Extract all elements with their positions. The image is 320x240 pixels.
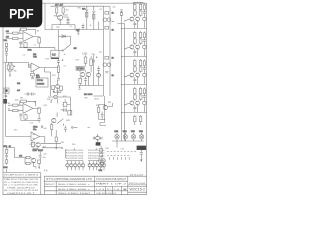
svg-text:CHK BY 13-67-67: CHK BY 13-67-67 bbox=[96, 193, 117, 195]
transistor KA2 bbox=[70, 161, 73, 171]
label vib bbox=[4, 40, 8, 42]
svg-text:R35: R35 bbox=[44, 105, 47, 107]
wire keyboard KB rail bbox=[88, 160, 105, 162]
wire Q9 to rail bbox=[93, 95, 103, 97]
transistor Q5 bbox=[136, 17, 140, 21]
resistor R14 bbox=[134, 59, 136, 66]
resistor R20 bbox=[98, 105, 100, 113]
resistor R44 bbox=[5, 43, 7, 48]
resistor R30 bbox=[90, 56, 93, 66]
svg-text:ADJ: ADJ bbox=[36, 76, 40, 79]
resistor VR5c bbox=[5, 160, 8, 163]
resistor R17 bbox=[139, 87, 141, 94]
transistor Q11 bbox=[136, 101, 140, 105]
transistor Q9b bbox=[97, 73, 101, 77]
svg-text:TR2: TR2 bbox=[56, 27, 60, 29]
wire chain down bbox=[57, 72, 59, 78]
capacitor C5 bbox=[57, 58, 60, 62]
lamp LP1 bbox=[115, 133, 119, 141]
wire T1 top bbox=[54, 48, 56, 51]
svg-text:R37: R37 bbox=[30, 144, 33, 146]
connector J2 pin bbox=[5, 89, 7, 91]
label R2 value bbox=[6, 36, 9, 38]
label rail cluster2 bbox=[112, 58, 114, 60]
wire drops to bus bbox=[45, 3, 75, 29]
label MO MOD bbox=[84, 94, 93, 96]
potentiometer VR2 bbox=[85, 9, 88, 20]
svg-text:4k7 4k7: 4k7 4k7 bbox=[55, 4, 64, 6]
resistor R71 right bbox=[143, 31, 145, 37]
junction lamp bus bbox=[116, 140, 117, 141]
label VR2 bbox=[82, 9, 85, 11]
svg-text:PITCH: PITCH bbox=[37, 80, 44, 82]
capacitor C81 right bbox=[143, 38, 146, 46]
lamp LP2 label bbox=[123, 131, 128, 133]
wire U3 inputs bbox=[18, 105, 23, 111]
wire cell 3 bottom row bbox=[122, 105, 147, 113]
resistor R36 bbox=[38, 108, 41, 113]
switch SW4 bbox=[59, 45, 71, 52]
resistor R45 bbox=[5, 48, 7, 54]
svg-text:TR1: TR1 bbox=[54, 16, 58, 18]
wire row y97 bbox=[48, 93, 71, 98]
capacitor C3 bbox=[82, 24, 85, 30]
svg-text:100k: 100k bbox=[3, 167, 7, 169]
resistor R4b bbox=[38, 38, 41, 43]
transistor KB3 bbox=[95, 161, 98, 171]
wire cell4 stubs bbox=[135, 122, 141, 125]
wire cell 2 base links bbox=[125, 71, 141, 77]
title text row1 bbox=[46, 178, 92, 181]
lamp LP4 bbox=[139, 133, 143, 141]
wire input to U3 bbox=[8, 105, 13, 111]
svg-text:MO MOD: MO MOD bbox=[84, 94, 93, 96]
wire rail V2 bbox=[109, 7, 111, 97]
svg-text:1M: 1M bbox=[8, 108, 11, 110]
svg-text:C5: C5 bbox=[64, 66, 66, 68]
capacitor C83 right bbox=[143, 94, 146, 102]
transistor Q92 right bbox=[143, 73, 146, 76]
label r38 bbox=[19, 155, 22, 157]
wire bus drop x58.4 bbox=[57, 30, 59, 51]
resistor R12 bbox=[134, 31, 136, 38]
capacitor C22 bbox=[93, 137, 95, 140]
op-amp U2 bbox=[31, 63, 40, 72]
wire R27 tie bbox=[62, 104, 70, 106]
svg-text:C2: C2 bbox=[70, 26, 72, 28]
box pitch reference bbox=[36, 78, 48, 87]
label VR5d bbox=[3, 167, 7, 169]
transistor KA3 bbox=[74, 161, 77, 171]
capacitor C10e bbox=[133, 105, 136, 112]
wire Q6 cluster bbox=[53, 83, 61, 93]
wire oscillator top bracket bbox=[134, 2, 144, 4]
svg-text:C4: C4 bbox=[23, 55, 25, 57]
wire VR5 down bbox=[6, 163, 8, 172]
wire bus B1 bbox=[45, 29, 104, 31]
wire cell 2 bottom row bbox=[122, 77, 147, 85]
transistor KB5 bbox=[102, 161, 105, 171]
wire U3 feedback loop bbox=[20, 101, 36, 106]
op-amp U1 bbox=[23, 32, 33, 42]
svg-text:R41: R41 bbox=[106, 148, 109, 150]
transistor Q8 bbox=[130, 73, 134, 77]
wire rail V1 bbox=[103, 7, 105, 97]
transistor Q9 bbox=[86, 72, 91, 77]
lamp LP2 bbox=[123, 133, 127, 141]
wire label tie bbox=[85, 55, 87, 57]
keyboard block KA text rows bbox=[66, 150, 84, 160]
label U2b bbox=[33, 56, 38, 58]
svg-text:10k: 10k bbox=[14, 71, 17, 73]
wire rail top join bbox=[104, 5, 111, 7]
svg-text:C20: C20 bbox=[43, 154, 46, 156]
svg-text:C1: C1 bbox=[34, 45, 36, 47]
svg-text:BY: BY bbox=[107, 189, 112, 191]
transistor Q2 bbox=[103, 18, 107, 22]
wire rail V1 tail bbox=[104, 96, 106, 123]
label SW4 bbox=[74, 48, 77, 50]
svg-text:VR2: VR2 bbox=[78, 8, 82, 10]
wire input long bbox=[6, 136, 32, 138]
transistor Q7 bbox=[136, 45, 140, 49]
op-amp U2 input caps bbox=[29, 64, 30, 67]
svg-text:VIB.: VIB. bbox=[4, 40, 8, 42]
svg-text:STYLOPHONE DIAMOND LTD: STYLOPHONE DIAMOND LTD bbox=[46, 178, 92, 181]
lamp LP3 label bbox=[131, 131, 136, 133]
svg-text:1M: 1M bbox=[6, 36, 9, 38]
label R5 R6 bbox=[55, 4, 64, 6]
transistor Q11 bbox=[31, 158, 36, 163]
ground arrow speaker bbox=[140, 154, 142, 162]
capacitor C30 rail top bbox=[120, 10, 122, 11]
jack ring J3 bbox=[54, 95, 58, 99]
svg-text:100n: 100n bbox=[28, 50, 32, 52]
resistor R27 bbox=[63, 99, 67, 107]
svg-text:C10: C10 bbox=[30, 123, 33, 125]
lamp LP1 label bbox=[114, 131, 119, 133]
transistor KA5 bbox=[81, 161, 84, 171]
plus mark VR bbox=[14, 66, 16, 68]
wire right rail x70.5 bbox=[58, 97, 71, 116]
resistor R21 bbox=[7, 63, 9, 70]
capacitor C19 bbox=[42, 126, 43, 129]
resistor VR5 bbox=[5, 148, 8, 154]
svg-text:ST350: ST350 bbox=[77, 68, 85, 71]
svg-text:VIB. +/- T1 .56 51P05700 U 8.5: VIB. +/- T1 .56 51P05700 U 8.5-35 CHKD bbox=[4, 185, 38, 187]
transistor Q9 bbox=[136, 73, 140, 77]
resistor R32 bbox=[13, 104, 18, 106]
capacitor C3b bbox=[105, 72, 108, 73]
transistor Q91 right bbox=[143, 45, 146, 48]
svg-text:VIB. +/- T2 CAPSULE 24 2.2 AND: VIB. +/- T2 CAPSULE 24 2.2 AND 9150 IN bbox=[4, 181, 38, 184]
title text row3 bbox=[58, 189, 91, 191]
resistor R29 bbox=[84, 57, 87, 63]
capacitor C12 bbox=[5, 153, 8, 160]
svg-text:TR9: TR9 bbox=[56, 91, 60, 93]
wire top feed bbox=[51, 6, 104, 11]
transistor Q4 bbox=[130, 17, 134, 21]
svg-text:ONE 4550P157: ONE 4550P157 bbox=[7, 187, 37, 189]
capacitor C6e bbox=[133, 49, 136, 56]
notes text bbox=[4, 173, 39, 195]
switch SW3 bbox=[57, 113, 63, 127]
junction cell 1 bbox=[121, 48, 125, 57]
transistor Q3b bbox=[107, 63, 111, 67]
transistor Q16 bbox=[99, 159, 102, 162]
svg-text:R29: R29 bbox=[76, 60, 79, 62]
wire Q14 right bbox=[108, 103, 113, 107]
svg-text:10n: 10n bbox=[43, 157, 46, 159]
svg-text:WS 15-2-004: WS 15-2-004 bbox=[129, 183, 146, 185]
svg-text:560: 560 bbox=[44, 128, 47, 130]
svg-text:VIB. LAMP R1234 PC 15 RANGE 16: VIB. LAMP R1234 PC 15 RANGE 16 bbox=[4, 173, 39, 176]
label vol max bbox=[33, 149, 44, 152]
capacitor C23 bbox=[100, 137, 102, 140]
wire U2 lower bbox=[33, 70, 35, 73]
label rail cluster2b bbox=[112, 75, 114, 77]
svg-text:100k: 100k bbox=[82, 54, 88, 56]
transistor KB4 bbox=[99, 161, 102, 171]
wire U4 bottom bbox=[33, 141, 38, 149]
svg-text:SW2: SW2 bbox=[66, 120, 70, 122]
svg-text:32R: 32R bbox=[99, 170, 103, 172]
capacitor C6 bbox=[57, 79, 60, 83]
resistor R38 bbox=[26, 156, 30, 158]
label U2 bbox=[33, 54, 37, 56]
svg-text:TR8: TR8 bbox=[108, 102, 112, 104]
svg-text:R10 R12 R14 R16: R10 R12 R14 R16 bbox=[66, 158, 84, 160]
svg-text:1k: 1k bbox=[61, 148, 63, 150]
transistor Q90 right bbox=[143, 17, 146, 20]
transistor Q17 bbox=[102, 159, 105, 162]
capacitor C8 bbox=[92, 55, 95, 70]
svg-text:R20: R20 bbox=[96, 105, 99, 107]
wire U1 inputs bbox=[18, 33, 23, 38]
capacitor C10 bbox=[19, 113, 22, 121]
wire bus left bbox=[3, 63, 31, 68]
resistor R3 bbox=[21, 28, 27, 30]
resistor R2 bbox=[13, 38, 18, 40]
keyboard block KB top stub bbox=[95, 148, 97, 150]
svg-text:1M: 1M bbox=[8, 103, 11, 105]
lamp LP4 label bbox=[139, 131, 144, 133]
svg-text:VR6: VR6 bbox=[61, 142, 65, 144]
title text row4 bbox=[58, 193, 92, 195]
svg-text:1k: 1k bbox=[112, 75, 114, 77]
transistor Q14 bbox=[103, 105, 107, 109]
capacitor C9 bbox=[97, 66, 100, 73]
svg-text:R23: R23 bbox=[46, 59, 49, 61]
label VR5b bbox=[9, 146, 11, 148]
plus sign C5 bbox=[62, 59, 64, 61]
resistor R6 bbox=[62, 8, 64, 13]
label value 4k7 bbox=[76, 30, 80, 32]
wire Q1 connections bbox=[57, 13, 63, 25]
resistor R39 bbox=[26, 162, 30, 164]
svg-text:DRN: DRN bbox=[96, 189, 104, 191]
svg-text:EDIT MAX: EDIT MAX bbox=[33, 149, 44, 152]
svg-text:VIB. +/- T0 P1541 E3 1.62 350: VIB. +/- T0 P1541 E3 1.62 350 19-100 bbox=[4, 190, 39, 192]
svg-text:P.A.: P.A. bbox=[114, 188, 120, 191]
capacitor C13 bbox=[39, 153, 42, 161]
speaker label box bbox=[137, 146, 147, 150]
potentiometer VR3 bbox=[92, 11, 95, 22]
wire cell 1 bottom row bbox=[122, 49, 147, 57]
lamp LP3 bbox=[131, 133, 135, 141]
label 100k dark bbox=[82, 54, 88, 56]
label jack cluster bbox=[99, 170, 103, 172]
resistor R16 bbox=[134, 87, 136, 94]
wire collector bus bbox=[52, 15, 75, 25]
svg-text:C9: C9 bbox=[99, 75, 101, 77]
dashed line mid-bottom bbox=[107, 151, 136, 153]
svg-text:680: 680 bbox=[20, 98, 23, 100]
wire R29 to box bbox=[80, 63, 91, 72]
resistor R7b bbox=[105, 57, 109, 60]
wire lamp bus bbox=[112, 141, 144, 148]
wire VR drops bbox=[87, 21, 99, 30]
svg-text:22k: 22k bbox=[113, 7, 116, 9]
transistor KA4 bbox=[77, 161, 80, 171]
capacitor C16 bbox=[31, 76, 34, 79]
ground arrow J3 bbox=[50, 99, 52, 103]
ground arrow VR bbox=[9, 73, 11, 77]
transistor Q15 bbox=[96, 136, 100, 140]
transistor Q1 bbox=[58, 15, 63, 20]
transistor Q2b bbox=[103, 63, 107, 67]
keyboard block KA top stub bbox=[73, 148, 75, 150]
contact stub bbox=[72, 127, 78, 129]
svg-text:900-1300-1600: 900-1300-1600 bbox=[58, 193, 92, 195]
capacitor C2 bbox=[67, 17, 70, 21]
svg-text:PRODUCT: PRODUCT bbox=[45, 184, 56, 186]
diode D2 bbox=[58, 35, 70, 38]
resistor R33 bbox=[13, 110, 18, 112]
wire U1 output bbox=[19, 37, 55, 48]
wire U4 output bbox=[40, 137, 45, 144]
label U4 bbox=[33, 127, 37, 129]
svg-text:1M: 1M bbox=[37, 31, 40, 33]
resistor R42 bbox=[100, 152, 103, 157]
svg-text:PART 1 OF 2: PART 1 OF 2 bbox=[96, 183, 128, 186]
svg-text:MOD: MOD bbox=[95, 99, 100, 101]
svg-text:R10 R12 R14 R16: R10 R12 R14 R16 bbox=[66, 153, 84, 155]
transistor Q8 bbox=[80, 72, 85, 77]
svg-text:TR6: TR6 bbox=[84, 98, 88, 100]
transformer T1 box bbox=[51, 50, 59, 57]
plus mark Q6 bbox=[54, 91, 55, 92]
junction Q14 bbox=[104, 104, 105, 120]
tick row below dashes bbox=[110, 157, 130, 159]
wire keyboard KA rail bbox=[66, 160, 83, 162]
capacitor C9b bbox=[84, 77, 87, 86]
svg-text:R30: R30 bbox=[92, 54, 95, 56]
wire feedback loop bbox=[20, 29, 36, 34]
label mark top bbox=[88, 126, 90, 128]
svg-text:R14: R14 bbox=[72, 144, 75, 146]
resistor R70 right bbox=[143, 3, 145, 9]
svg-text:2k: 2k bbox=[112, 13, 114, 15]
dashed line mid-bottom 2 bbox=[107, 155, 130, 157]
capacitor C4 bbox=[5, 54, 8, 63]
wire cell 1 base links bbox=[125, 43, 141, 49]
capacitor C6 box bbox=[133, 38, 136, 44]
svg-text:SW: SW bbox=[74, 48, 77, 50]
svg-text:6.3: 6.3 bbox=[52, 52, 56, 56]
op-amp U3 bbox=[23, 104, 33, 114]
svg-text:1M: 1M bbox=[6, 31, 9, 33]
op-amp U4 bbox=[31, 132, 40, 141]
junction cell 2 bbox=[121, 76, 125, 85]
resistor R10 bbox=[134, 3, 136, 10]
transistor KB2 bbox=[92, 161, 95, 171]
resistor R28 bbox=[51, 123, 53, 137]
title text right small bbox=[129, 183, 146, 185]
capacitor C80 right bbox=[143, 10, 146, 18]
wire Q11 bbox=[25, 158, 36, 167]
resistor R24 bbox=[57, 62, 59, 72]
label 100n bbox=[28, 50, 32, 52]
svg-text:2k: 2k bbox=[112, 58, 114, 60]
svg-text:R25: R25 bbox=[63, 96, 66, 98]
resistor R23 bbox=[31, 73, 35, 76]
capacitor C9 box bbox=[139, 66, 142, 72]
svg-text:10u: 10u bbox=[99, 52, 102, 54]
dark box Q15 bbox=[96, 142, 101, 145]
capacitor C15 bbox=[101, 112, 104, 117]
ground arrow Q11 bbox=[36, 163, 40, 169]
wire U2 output bbox=[40, 68, 59, 97]
PDF badge bbox=[0, 0, 42, 27]
notes box frame bbox=[3, 173, 41, 195]
wire input to U1 bbox=[6, 33, 13, 38]
capacitor C18 bbox=[5, 95, 8, 96]
svg-text:1k: 1k bbox=[90, 25, 92, 27]
svg-text:SW1: SW1 bbox=[61, 110, 65, 112]
resistor R15 bbox=[139, 59, 141, 66]
svg-text:150k: 150k bbox=[15, 100, 19, 102]
resistor R22 bbox=[11, 63, 13, 70]
svg-text:10k: 10k bbox=[82, 9, 85, 11]
capacitor C4 box bbox=[133, 10, 136, 16]
svg-text:R26: R26 bbox=[47, 99, 50, 101]
wire C13 top bbox=[39, 151, 41, 153]
transistor Q18 bbox=[100, 162, 103, 168]
capacitor C4e bbox=[133, 21, 136, 28]
svg-text:R10 R12 R14 R16: R10 R12 R14 R16 bbox=[66, 150, 84, 152]
wire stub right bbox=[7, 148, 27, 158]
capacitor C8e bbox=[133, 77, 136, 84]
transistor Q10 bbox=[130, 101, 134, 105]
resistor R73 right bbox=[143, 87, 145, 93]
wire tie y85.6 bbox=[78, 70, 104, 86]
title corner mark bbox=[130, 175, 144, 177]
svg-text:RANGE: RANGE bbox=[37, 82, 45, 85]
resistor R72 right bbox=[143, 59, 145, 65]
resistor R34 bbox=[21, 100, 27, 102]
box D1 rail top bbox=[120, 13, 122, 16]
resistor R5 bbox=[56, 8, 58, 13]
title text product bbox=[45, 184, 91, 186]
box C13b bbox=[38, 160, 41, 163]
capacitor C11 box bbox=[139, 94, 142, 100]
label OSC ADJ bbox=[36, 76, 40, 79]
wire bottom row bbox=[41, 130, 66, 158]
junction cell 0 bbox=[121, 20, 125, 29]
junction Q1 emitter bbox=[60, 24, 61, 25]
resistor R18 bbox=[134, 115, 136, 122]
